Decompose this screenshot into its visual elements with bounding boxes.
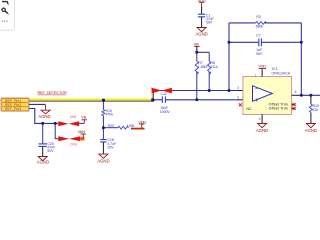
harness entry REF_Pin1 (2, 99, 29, 103)
junction harness end / C12 node (151, 98, 154, 101)
power port VDD (R20) (139, 124, 144, 128)
wire pin2 net (C12 X to op-amp) (152, 90, 238, 92)
pin stub pin3 (238, 99, 253, 101)
svg-text:R3: R3 (256, 15, 261, 19)
svg-text:470k: 470k (106, 112, 114, 116)
svg-text:3: 3 (237, 96, 239, 100)
wire VB node horizontal (197, 51, 209, 53)
capacitor C7 (259, 39, 262, 47)
wire harness net line (29, 100, 153, 102)
svg-text:C7: C7 (256, 34, 261, 38)
orange off-grid marker (81, 137, 85, 141)
wire C20 branch (42, 123, 44, 143)
svg-text:1000V: 1000V (160, 110, 171, 114)
feedback network left vertical wire (228, 23, 230, 91)
svg-text:VAN: VAN (78, 129, 86, 134)
svg-text:R20: R20 (108, 124, 114, 128)
power port VAN (81, 134, 86, 137)
ground AGND under op-amp (258, 124, 267, 128)
svg-text:AGND: AGND (38, 114, 50, 119)
capacitor C12 (series) (162, 96, 165, 103)
svg-text:AGND: AGND (305, 128, 317, 133)
svg-text:Offset Trim: Offset Trim (269, 107, 288, 111)
svg-text:12k: 12k (313, 108, 319, 112)
ground AGND under R15 (306, 124, 315, 128)
junction C20 branch (41, 122, 44, 125)
svg-text:AGND: AGND (97, 159, 109, 164)
wire R8 vertical (208, 52, 210, 61)
junction diode branch (54, 122, 57, 125)
svg-text:25V: 25V (107, 145, 114, 149)
svg-text:50V: 50V (206, 21, 213, 25)
svg-text:VDD: VDD (258, 63, 266, 68)
junction R20-C18 node (102, 126, 105, 129)
junction R8/pin2 wire (208, 89, 211, 92)
op-amp triangle (253, 86, 273, 101)
svg-text:AGND: AGND (195, 32, 207, 37)
diode D1 DNI (crossed out) (58, 121, 79, 126)
power port VB (bias divider) (194, 46, 199, 52)
svg-text:2: 2 (237, 86, 239, 90)
resistor R3 (256, 22, 267, 25)
svg-text:DNI: DNI (70, 115, 76, 119)
op-amp output pin stub (292, 94, 300, 96)
pin 4 stub (261, 114, 263, 123)
svg-text:OPA134CA: OPA134CA (271, 71, 290, 76)
svg-text:C12: C12 (161, 92, 167, 96)
wire R3 top (229, 22, 256, 24)
resistor R8 (208, 61, 211, 74)
resistor R10 (102, 100, 104, 110)
svg-text:REF_Pin3: REF_Pin3 (5, 107, 21, 111)
junction R7/pin3 wire (195, 98, 198, 101)
ground AGND row2 (41, 110, 50, 114)
harness connector box (1, 98, 29, 111)
junction feedback-left/pin2 wire (228, 89, 231, 92)
svg-text:VB: VB (81, 115, 86, 120)
op-amp IC1 body (243, 77, 292, 115)
wire row3 down and across (29, 109, 55, 124)
junction feedback-right/C7 wire (300, 41, 303, 44)
svg-text:1.65M: 1.65M (198, 65, 208, 69)
svg-text:AGND: AGND (37, 160, 49, 165)
svg-text:AGND: AGND (256, 128, 268, 133)
wire R7 vertical (196, 47, 198, 62)
junction feedback-left/C7 wire (228, 41, 231, 44)
toolbar icon 1 (wrench, clipped at top) (2, 2, 9, 5)
ground AGND under C20 (38, 157, 47, 161)
svg-text:NC: NC (246, 107, 252, 111)
capacitor C20 (39, 144, 47, 147)
svg-text:DNI: DNI (70, 142, 76, 146)
junction VB node (195, 51, 198, 54)
junction R15/output wire (309, 94, 312, 97)
svg-text:REF_DETECTOR: REF_DETECTOR (38, 90, 67, 95)
pin 7 stub (261, 69, 263, 77)
svg-text:VB: VB (194, 42, 199, 47)
wire to DNI diode pair (55, 122, 58, 124)
toolbar icon 2 (wrench) (2, 8, 9, 14)
wire row2 to ground (29, 103, 46, 105)
feedback network right vertical wire (300, 23, 302, 95)
svg-text:100k: 100k (127, 124, 135, 128)
power port VB (diode clamp) (82, 120, 87, 124)
capacitor C1 (201, 7, 203, 14)
harness entry REF_Pin3 (2, 107, 29, 111)
svg-text:4: 4 (259, 117, 261, 121)
capacitor C18 (102, 128, 104, 140)
svg-text:7: 7 (255, 74, 257, 78)
resistor R7 (195, 61, 198, 74)
wire vertical stub to C12 net (152, 91, 154, 101)
ground AGND under C1 (197, 28, 206, 32)
ground AGND under C18 (99, 154, 108, 158)
resistor R20 branch to VDD (103, 127, 118, 129)
wire output net (300, 94, 320, 96)
junction feedback-right/output wire (300, 94, 303, 97)
wire power-colored segment (131, 128, 145, 130)
harness entry REF_Pin2 (2, 103, 29, 107)
svg-text:50V: 50V (47, 149, 54, 153)
wire pin3 net (153, 99, 162, 101)
DNI cross over bypass component (152, 88, 172, 94)
harness yellow highlight band (net REF_DETECTOR) (29, 90, 154, 103)
pin stub pin2 (238, 90, 253, 92)
wire C7 middle (229, 41, 258, 43)
diode D2 DNI (crossed out) (58, 136, 80, 141)
svg-text:680k: 680k (256, 25, 264, 29)
junction R10/harness (102, 99, 105, 102)
svg-text:511k: 511k (210, 65, 217, 69)
svg-text:VDD: VDD (138, 119, 146, 124)
resistor R15 (310, 95, 312, 104)
svg-text:50V: 50V (256, 52, 263, 56)
toolbar panel top-left (0, 0, 15, 30)
toolbar ellipsis (2, 21, 8, 22)
svg-text:6: 6 (295, 90, 297, 94)
